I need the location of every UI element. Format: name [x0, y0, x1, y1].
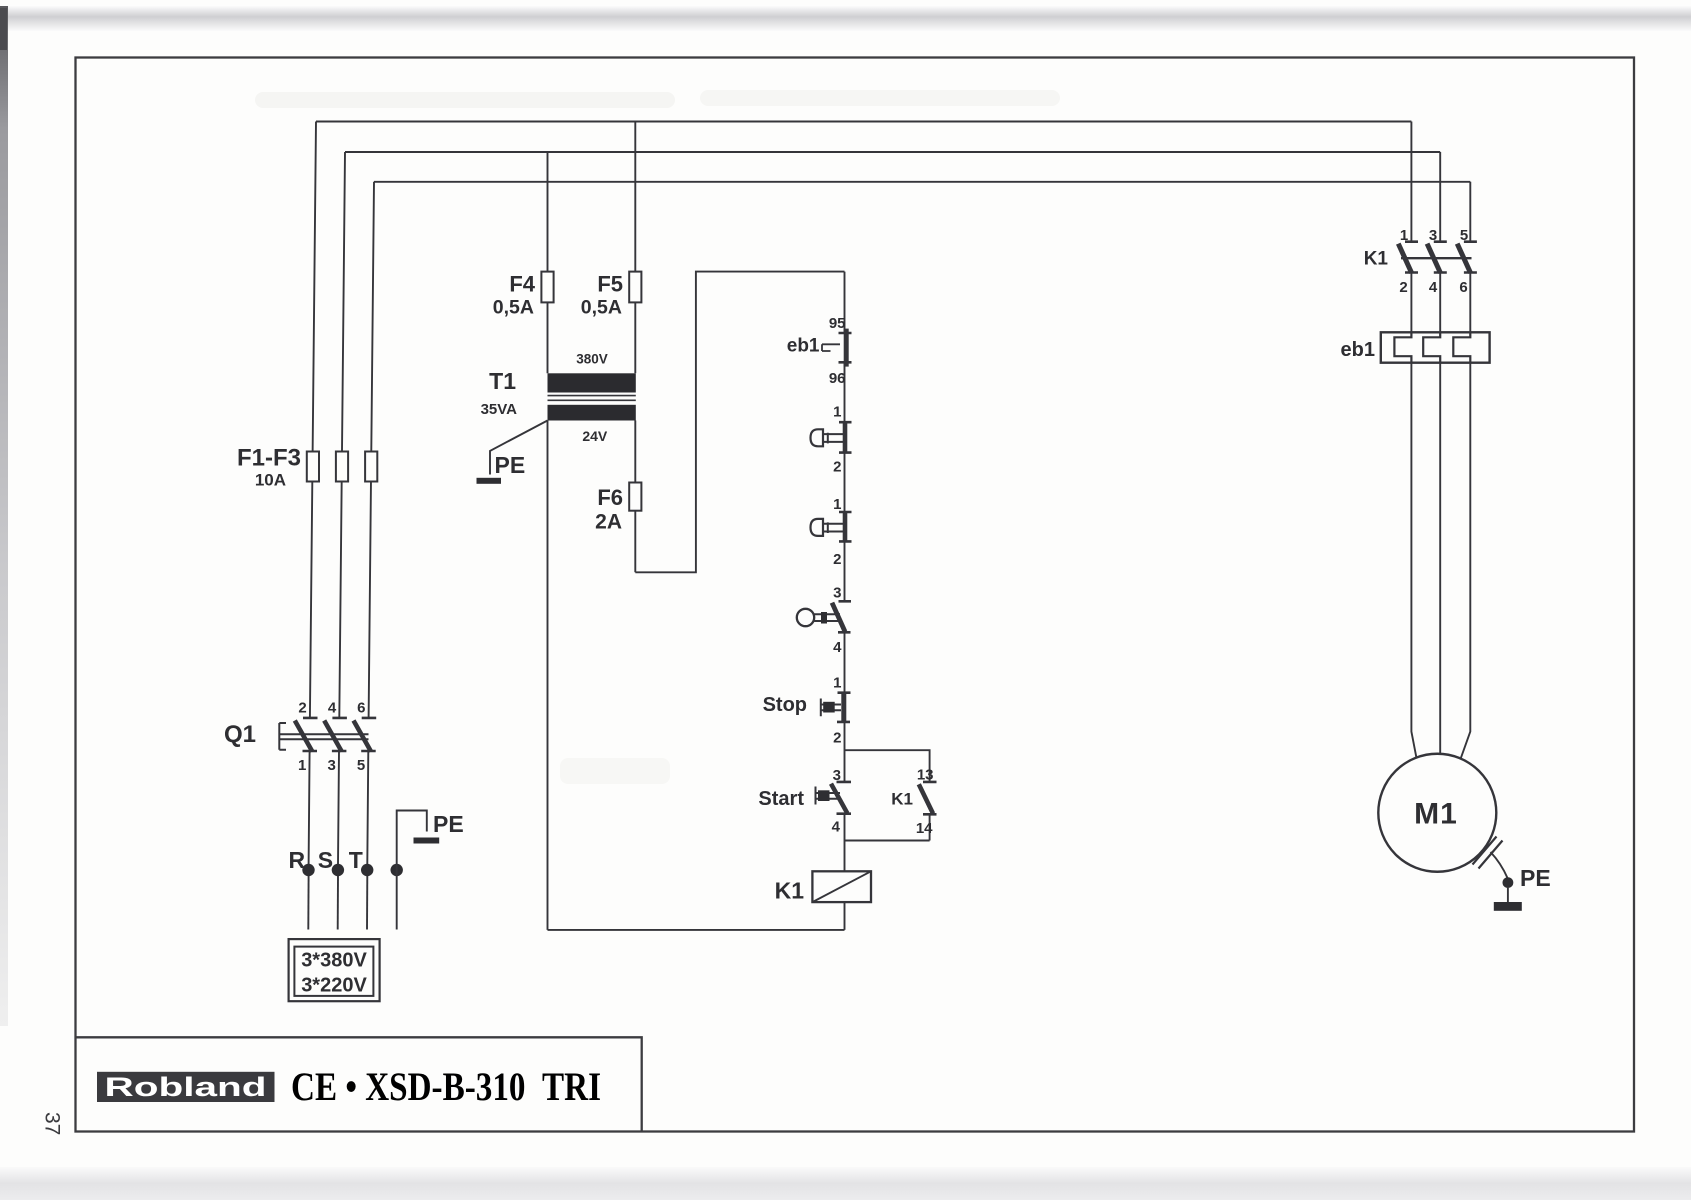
wire control loop up [635, 272, 844, 573]
wire F5 drop from bus R [634, 122, 636, 374]
svg-text:6: 6 [1459, 279, 1467, 296]
svg-text:0,5A: 0,5A [493, 297, 534, 319]
svg-text:T: T [349, 847, 363, 873]
svg-text:1: 1 [833, 675, 841, 692]
wire motor feed phase 1 [1411, 363, 1416, 758]
wire K1 main drop phase 3 [1469, 182, 1471, 332]
svg-text:S: S [318, 847, 333, 873]
wire motor feed phase 2 [1439, 363, 1441, 754]
wire bus T (top phase 3) [374, 181, 1470, 183]
node S terminal dot [332, 864, 344, 876]
transformer T1 secondary winding [548, 405, 636, 421]
svg-text:2: 2 [833, 459, 841, 476]
svg-text:4: 4 [833, 639, 842, 656]
svg-text:4: 4 [1429, 279, 1438, 296]
node PE terminal dot [391, 864, 403, 876]
svg-text:2: 2 [1399, 279, 1407, 296]
svg-text:3: 3 [833, 585, 841, 602]
svg-text:380V: 380V [576, 352, 608, 367]
svg-text:2: 2 [833, 730, 841, 747]
switch Q1 pole 3 [354, 718, 377, 752]
wire motor feed phase 3 [1461, 363, 1470, 758]
svg-text:F1-F3: F1-F3 [237, 445, 301, 472]
wire F4 drop from bus S [547, 152, 549, 373]
wire phase R below node to terminal [307, 876, 309, 930]
fuse F3 [365, 452, 377, 482]
emergency mushroom switch 3-4 [797, 601, 851, 632]
svg-text:K1: K1 [1364, 249, 1389, 270]
wire T1 secondary left drop [547, 421, 549, 930]
svg-text:Stop: Stop [763, 694, 807, 716]
node motor PE dot [1503, 877, 1514, 888]
wire T1 secondary right drop [634, 421, 636, 573]
svg-text:3: 3 [328, 757, 336, 774]
svg-text:4: 4 [328, 700, 337, 717]
supply label box 3*380V / 3*220V [289, 939, 380, 1001]
svg-text:F6: F6 [597, 485, 623, 510]
svg-text:95: 95 [829, 315, 846, 332]
svg-text:3*220V: 3*220V [301, 975, 367, 997]
svg-text:1: 1 [298, 757, 306, 774]
svg-text:2A: 2A [595, 511, 622, 534]
fuse F4 [541, 272, 553, 303]
wire phase S below node to terminal [337, 876, 339, 930]
scan artifact: top gray band [0, 5, 1691, 31]
wire PE tap of T1 [490, 421, 548, 475]
svg-text:Robland: Robland [105, 1072, 267, 1102]
wire control chain vertical segments [844, 272, 846, 930]
motor PE slashes [1473, 837, 1503, 869]
contact K1 auxiliary 13-14 [919, 782, 937, 814]
switch Q1 pole 2 [324, 718, 347, 752]
svg-text:5: 5 [1460, 227, 1468, 244]
contact lamp-switch 1-2 (upper) [811, 422, 852, 452]
wire PE left riser [397, 811, 427, 930]
svg-text:3*380V: 3*380V [301, 950, 367, 972]
scan artifact: faint ghost print top [255, 90, 1060, 784]
pushbutton Start 3-4 [816, 782, 852, 814]
wire phase R left drop [309, 122, 316, 865]
ground PE left [414, 838, 440, 844]
wire bus S (top phase 2) [345, 151, 1440, 153]
svg-text:37: 37 [41, 1112, 64, 1135]
wire bus R (top phase 1) [316, 121, 1411, 123]
wire holding-circuit branch [845, 750, 930, 840]
svg-text:PE: PE [433, 811, 464, 837]
coil K1 [812, 871, 871, 902]
svg-text:eb1: eb1 [1341, 339, 1375, 361]
node R terminal dot [302, 864, 314, 876]
svg-text:1: 1 [1400, 227, 1408, 244]
contact eb1 auxiliary 95-96 [822, 329, 852, 367]
svg-text:13: 13 [917, 767, 934, 784]
switch Q1 mechanical link [279, 723, 368, 750]
svg-text:1: 1 [833, 404, 841, 421]
svg-text:4: 4 [832, 819, 841, 836]
contact lamp-switch 1-2 (lower) [811, 512, 852, 541]
svg-text:CE • XSD-B-310 TRI: CE • XSD-B-310 TRI [291, 1064, 601, 1109]
svg-text:R: R [288, 847, 305, 873]
svg-text:14: 14 [916, 820, 933, 837]
overload eb1 element phase 1 [1394, 332, 1411, 362]
contactor K1 pole 3 [1457, 242, 1477, 273]
svg-text:3: 3 [833, 767, 841, 784]
fuse F5 [629, 272, 641, 303]
svg-text:PE: PE [495, 452, 526, 478]
svg-text:10A: 10A [255, 471, 286, 490]
svg-text:T1: T1 [489, 368, 516, 394]
wire phase T left drop [367, 182, 374, 864]
pushbutton Stop 1-2 [821, 693, 851, 722]
overload relay eb1 box [1381, 332, 1490, 362]
wire phase S left drop [338, 152, 345, 864]
svg-text:5: 5 [357, 757, 365, 774]
scan artifact: dark top-left wedge [0, 8, 7, 50]
wire phase T below node to terminal [366, 876, 368, 930]
transformer T1 primary winding [548, 373, 636, 392]
svg-text:F5: F5 [597, 272, 623, 297]
svg-text:6: 6 [357, 700, 365, 717]
svg-text:2: 2 [833, 551, 841, 568]
svg-text:K1: K1 [891, 790, 913, 809]
scan artifact: left page edge strip [0, 6, 8, 1026]
contactor K1 pole 1 [1398, 242, 1418, 273]
ground motor PE [1507, 888, 1509, 902]
fuse F2 [336, 452, 348, 482]
svg-text:35VA: 35VA [481, 401, 518, 418]
title block [76, 1037, 642, 1131]
node T terminal dot [361, 864, 373, 876]
svg-text:F4: F4 [509, 272, 535, 297]
wire motor PE lead [1491, 852, 1508, 878]
svg-text:eb1: eb1 [787, 336, 820, 357]
svg-text:K1: K1 [775, 878, 805, 904]
svg-text:3: 3 [1429, 227, 1437, 244]
svg-text:2: 2 [298, 700, 306, 717]
svg-text:PE: PE [1520, 865, 1551, 891]
svg-text:Q1: Q1 [224, 721, 256, 748]
switch Q1 pole 1 [295, 718, 318, 752]
svg-text:M1: M1 [1414, 798, 1458, 831]
svg-text:96: 96 [829, 370, 846, 387]
motor M1 [1378, 754, 1496, 872]
overload eb1 element phase 3 [1453, 332, 1470, 362]
svg-text:0,5A: 0,5A [581, 297, 622, 319]
fuse F1 [307, 452, 319, 482]
scan artifact: bottom gray band [0, 1167, 1691, 1200]
svg-text:1: 1 [833, 496, 841, 513]
ground PE at T1 [477, 478, 502, 484]
wire K1 main drop phase 1 [1410, 122, 1412, 333]
transformer T1 core [548, 396, 636, 401]
fuse F6 [629, 483, 641, 511]
svg-text:24V: 24V [582, 428, 608, 444]
wire K1 main drop phase 2 [1439, 152, 1441, 332]
svg-text:Start: Start [758, 788, 804, 810]
contactor K1 pole 2 [1427, 242, 1447, 273]
Robland logo [97, 1072, 275, 1102]
contactor K1 link bar [1401, 257, 1472, 259]
wire control return to T1 [548, 929, 845, 931]
overload eb1 element phase 2 [1423, 332, 1440, 362]
